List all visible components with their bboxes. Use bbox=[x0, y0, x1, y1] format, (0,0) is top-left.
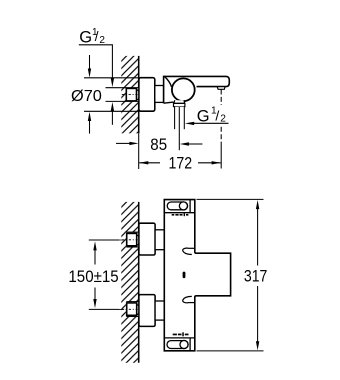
leader from G1/2 to union bbox=[79, 45, 113, 77]
svg-text:G: G bbox=[79, 29, 92, 47]
temperature indicator mark bbox=[183, 272, 186, 279]
arrow up to union bottom bbox=[111, 102, 114, 111]
172 right arrow bbox=[198, 162, 221, 164]
cartridge dome circle bbox=[172, 78, 195, 101]
85 right arrow to outlet axis bbox=[189, 143, 203, 145]
concave curve body top into cartridge circle bbox=[165, 77, 172, 87]
O70 bottom arrow bbox=[89, 121, 91, 134]
317 bottom extension line bbox=[197, 350, 264, 352]
172 right extension bbox=[220, 146, 222, 169]
bottom cap band line bbox=[164, 337, 195, 339]
svg-text:/: / bbox=[95, 29, 99, 44]
svg-text:Ø70: Ø70 bbox=[71, 88, 102, 105]
thermostat body outline bbox=[164, 200, 230, 351]
union square in wall (top view) bbox=[122, 88, 140, 102]
wall (hatched) top view bbox=[121, 56, 138, 133]
svg-text:150±15: 150±15 bbox=[68, 267, 118, 286]
150±15 up arrow bbox=[93, 241, 96, 250]
wall (hatched) bottom view bbox=[121, 202, 138, 363]
85 left arrow to wall face bbox=[116, 142, 131, 144]
bottom scale marks bbox=[173, 332, 189, 336]
aerator nub under spout bbox=[217, 87, 225, 90]
O70 dimension bbox=[71, 88, 102, 105]
collar of down outlet bbox=[174, 103, 185, 106]
extension line escutcheon bottom (O70 dim) bbox=[84, 110, 139, 112]
wall face extension down bbox=[138, 133, 140, 169]
svg-text:G: G bbox=[197, 107, 210, 125]
317 top extension line bbox=[197, 198, 264, 200]
O70 top arrow bbox=[89, 55, 91, 69]
escutcheon (wall flange) side view bbox=[139, 78, 155, 112]
svg-text:172: 172 bbox=[169, 154, 193, 172]
svg-text:317: 317 bbox=[244, 267, 268, 285]
label G 1/2 (top) bbox=[79, 27, 105, 47]
bottom toggle button bbox=[167, 341, 188, 349]
top cap divider bbox=[189, 200, 191, 213]
317 down arrow bbox=[256, 341, 259, 350]
top scale marks bbox=[172, 213, 189, 216]
172 left arrow bbox=[139, 162, 160, 164]
extension line escutcheon top (O70 dim) bbox=[84, 77, 139, 79]
150±15 down arrow bbox=[93, 299, 96, 308]
body underside slant bbox=[164, 102, 174, 103]
connector lower bbox=[155, 301, 164, 320]
connector upper bbox=[155, 230, 164, 250]
escutcheon lower bbox=[139, 295, 155, 327]
mixer body + spout bar (side view) bbox=[164, 76, 230, 103]
label G 1/2 (outlet) bbox=[197, 105, 227, 125]
neck below circle bbox=[174, 100, 185, 103]
top cap band line bbox=[164, 212, 195, 214]
317 up arrow bbox=[256, 200, 259, 209]
connector nipple between escutcheon and body bbox=[155, 86, 164, 103]
leader line under G1/2 with arrow to pipe bbox=[194, 122, 229, 124]
dashed projection line from aerator bbox=[220, 90, 222, 106]
escutcheon upper bbox=[139, 223, 155, 255]
arrow down to union top bbox=[111, 78, 114, 87]
union square lower bbox=[122, 302, 140, 317]
extension line union top bbox=[106, 87, 139, 89]
bottom cap divider bbox=[189, 338, 191, 351]
centreline upper inlet bbox=[89, 239, 119, 241]
down outlet pipe bbox=[174, 107, 184, 151]
extension line union bottom bbox=[106, 100, 139, 102]
spout curl top bbox=[188, 247, 195, 249]
top toggle button bbox=[167, 202, 187, 210]
centreline lower inlet bbox=[89, 308, 119, 310]
svg-text:85: 85 bbox=[150, 135, 167, 154]
svg-text:/: / bbox=[215, 108, 219, 124]
spout curl bottom bbox=[188, 302, 195, 304]
svg-text:2: 2 bbox=[99, 35, 105, 46]
union square upper bbox=[122, 232, 140, 247]
outlet centreline through pipe bbox=[178, 107, 180, 150]
wall face line bbox=[138, 56, 140, 133]
